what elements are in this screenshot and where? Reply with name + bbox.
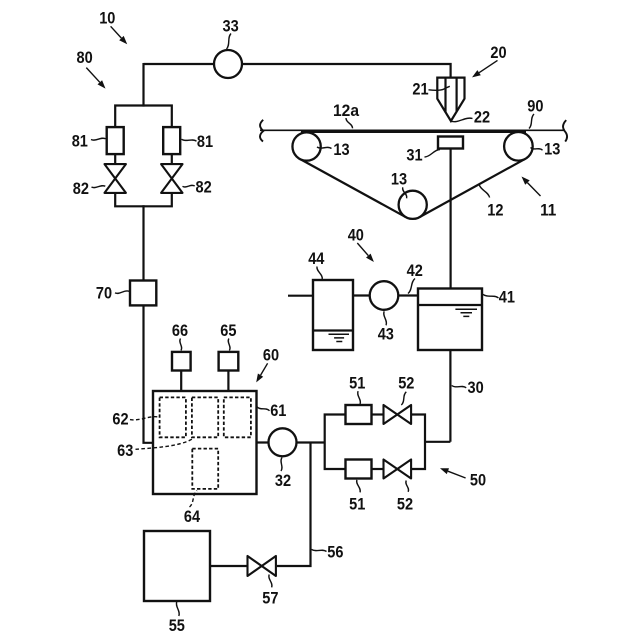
svg-text:57: 57 bbox=[262, 589, 278, 608]
valve block 50 right connector bbox=[410, 415, 425, 470]
svg-text:32: 32 bbox=[275, 471, 291, 490]
svg-text:13: 13 bbox=[544, 139, 560, 158]
wire main left vertical down to block 80 bbox=[142, 63, 144, 107]
svg-text:13: 13 bbox=[391, 170, 407, 189]
filter box 51 upper bbox=[346, 405, 372, 424]
web break mark right bbox=[563, 120, 567, 142]
svg-text:82: 82 bbox=[196, 178, 212, 197]
roller 13 right bbox=[504, 132, 533, 161]
svg-text:41: 41 bbox=[499, 288, 515, 307]
pipe 30 vertical up to tank 41 bbox=[449, 349, 451, 442]
wire box 51 lower to valve 52 lower bbox=[372, 468, 385, 470]
svg-text:10: 10 bbox=[99, 8, 115, 27]
svg-text:82: 82 bbox=[73, 179, 89, 198]
web break mark left bbox=[260, 120, 263, 142]
svg-text:64: 64 bbox=[184, 507, 201, 526]
dashed filter box 64 (bottom) bbox=[192, 449, 218, 489]
svg-text:90: 90 bbox=[527, 96, 543, 115]
dashed filter box 62 (top left) bbox=[160, 397, 186, 437]
filter unit box 60 bbox=[153, 391, 257, 494]
svg-text:52: 52 bbox=[397, 494, 413, 513]
print head 20 body bbox=[437, 78, 464, 121]
valve 52 lower bbox=[384, 460, 412, 479]
reservoir box 44 bbox=[313, 280, 353, 350]
wire block 80 down to box 70 bbox=[142, 205, 144, 281]
box 44 liquid level mark bbox=[329, 334, 350, 341]
svg-text:62: 62 bbox=[112, 410, 128, 429]
valve 82 left bbox=[105, 164, 126, 193]
pump 32 bbox=[269, 428, 297, 456]
svg-text:42: 42 bbox=[407, 261, 423, 280]
svg-text:43: 43 bbox=[378, 324, 394, 343]
wire left box 81 to valve 82 bbox=[114, 154, 116, 165]
web/belt thick top span bbox=[301, 130, 526, 133]
svg-text:52: 52 bbox=[398, 374, 414, 393]
svg-text:31: 31 bbox=[406, 145, 422, 164]
belt 12 left diagonal bbox=[300, 159, 406, 217]
pipe tank 41 up to sensor box 31 bbox=[450, 148, 452, 290]
filter box 51 lower bbox=[346, 460, 372, 479]
web 12a thin line bbox=[260, 129, 565, 131]
wire junction to pipe 30 bbox=[424, 441, 450, 443]
svg-text:40: 40 bbox=[348, 225, 364, 244]
svg-text:51: 51 bbox=[349, 494, 365, 513]
valve 57 bbox=[248, 556, 276, 576]
wire right box 81 to valve 82 bbox=[171, 154, 173, 165]
svg-text:56: 56 bbox=[327, 542, 343, 561]
box 70 bbox=[130, 281, 156, 306]
stem from box 66 bbox=[180, 371, 182, 393]
svg-text:21: 21 bbox=[412, 80, 428, 99]
pump 43 bbox=[370, 281, 399, 310]
tank 41 inner top line bbox=[418, 304, 482, 306]
svg-text:81: 81 bbox=[72, 132, 88, 151]
valve 82 right bbox=[161, 164, 182, 193]
svg-text:81: 81 bbox=[197, 132, 213, 151]
svg-text:60: 60 bbox=[263, 346, 279, 365]
pump 33 bbox=[214, 50, 242, 78]
damper box 81 left bbox=[107, 127, 124, 154]
svg-text:30: 30 bbox=[468, 378, 484, 397]
svg-text:50: 50 bbox=[470, 471, 486, 490]
svg-text:66: 66 bbox=[172, 321, 188, 340]
sensor box 65 bbox=[219, 352, 239, 371]
svg-text:44: 44 bbox=[308, 249, 325, 268]
roller 13 left bbox=[292, 132, 320, 160]
valve 52 upper bbox=[384, 405, 412, 424]
svg-text:65: 65 bbox=[220, 321, 236, 340]
svg-text:70: 70 bbox=[96, 283, 112, 302]
block 80 top bar and branch drops bbox=[115, 106, 172, 128]
wire box 70 down then into box 60 left side bbox=[144, 304, 155, 442]
belt 12 right diagonal bbox=[420, 159, 526, 217]
svg-text:22: 22 bbox=[474, 108, 490, 127]
dashed filter box 61 (top right) bbox=[224, 397, 251, 437]
wire box 51 upper to valve 52 upper bbox=[372, 413, 385, 415]
dashed filter box 63 (top middle) bbox=[192, 397, 218, 437]
sensor box 66 bbox=[172, 352, 191, 371]
block 80 bottom bar and branch rises bbox=[115, 192, 172, 206]
svg-text:55: 55 bbox=[169, 616, 185, 635]
svg-text:61: 61 bbox=[270, 401, 286, 420]
svg-text:13: 13 bbox=[333, 140, 349, 159]
damper box 81 right bbox=[163, 127, 180, 154]
wire tank 55 to valve 57 bbox=[209, 565, 249, 567]
wire box 60 right to pump 32 to valve block 50 bbox=[255, 441, 325, 443]
wire branch down to line 56 bbox=[277, 443, 311, 567]
svg-text:33: 33 bbox=[223, 17, 239, 36]
open stub wire left of box 44 bbox=[288, 295, 314, 297]
svg-text:80: 80 bbox=[77, 48, 93, 67]
stem from box 65 bbox=[227, 371, 229, 393]
valve block 50 left connector bbox=[325, 415, 346, 470]
roller 13 middle bbox=[399, 191, 427, 219]
box 44 inner bottom line bbox=[313, 329, 353, 331]
svg-text:12: 12 bbox=[487, 200, 503, 219]
svg-text:63: 63 bbox=[117, 441, 133, 460]
sensor box 31 bbox=[438, 137, 463, 149]
wire pump 43 to tank 41 bbox=[353, 294, 419, 296]
print head 20 inner channels bbox=[446, 79, 457, 113]
tank 41 liquid level mark bbox=[455, 309, 477, 316]
tank 41 bbox=[418, 289, 482, 351]
svg-text:11: 11 bbox=[540, 200, 556, 219]
tank 55 bbox=[144, 531, 210, 601]
svg-text:20: 20 bbox=[490, 43, 506, 62]
wire top run from corner through pump 33 to print head bbox=[144, 64, 451, 78]
svg-text:51: 51 bbox=[349, 374, 365, 393]
svg-text:12a: 12a bbox=[333, 101, 359, 120]
